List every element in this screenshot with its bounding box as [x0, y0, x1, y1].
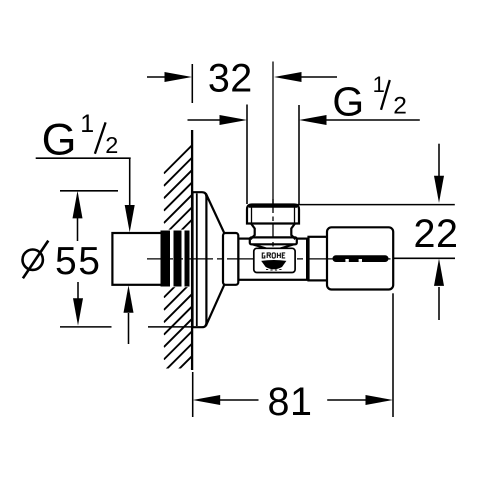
svg-text:G: G	[42, 114, 77, 164]
dim 32: right line+arrow	[274, 72, 337, 82]
wall line	[191, 130, 193, 370]
G1/2 right: thread ext lines	[246, 105, 248, 205]
G1/2 left: leader underline	[36, 157, 131, 159]
dim 32 ext line left	[191, 64, 193, 103]
centerline horizontal	[147, 258, 391, 260]
svg-text:G: G	[332, 79, 364, 125]
dia 55 symbol	[23, 250, 43, 270]
cone lower slope	[206, 284, 225, 326]
svg-text:22: 22	[414, 212, 459, 256]
G1/2 left: up arrow to pipe bottom	[124, 285, 134, 344]
inlet pipe	[112, 233, 162, 285]
outlet thread rim	[249, 205, 297, 208]
centerline vertical of outlet	[272, 62, 274, 205]
dim 22: up arrow	[434, 259, 444, 321]
svg-text:2: 2	[105, 132, 118, 158]
rosette	[193, 192, 207, 327]
GROHE wreath logo	[261, 260, 286, 269]
neck to handle	[309, 237, 328, 281]
dim 22: bottom ext line	[394, 257, 456, 259]
svg-text:81: 81	[268, 380, 313, 424]
G1/2 right text	[332, 72, 406, 125]
GROHE text	[262, 253, 285, 258]
dia 55: bottom ext line	[60, 326, 112, 328]
dim 22: down arrow	[434, 144, 444, 203]
wall hatching	[164, 145, 193, 409]
G1/2 left text	[42, 110, 119, 164]
outlet neck right	[291, 224, 295, 240]
G1/2 right: right arrow+leader	[299, 115, 420, 125]
valve body	[238, 239, 308, 280]
V notch in body top	[252, 244, 272, 250]
dim 22: top ext line	[295, 204, 455, 206]
dim 81: dim line + arrows	[193, 395, 393, 405]
svg-text:55: 55	[55, 240, 101, 283]
svg-text:1: 1	[80, 110, 94, 138]
outlet neck left	[251, 224, 255, 240]
handle	[327, 227, 393, 289]
dia 55: down arrow	[73, 282, 83, 326]
svg-text:2: 2	[393, 93, 407, 120]
handle groove	[333, 255, 389, 262]
G1/2 left: down arrow to pipe top	[125, 158, 135, 232]
svg-text:32: 32	[208, 56, 253, 100]
G1/2 right: left arrow	[188, 115, 248, 125]
dim 32: left line+arrow	[147, 72, 192, 82]
dim 81: ext lines	[192, 372, 194, 417]
GROHE label plate	[254, 248, 295, 272]
dia 55: top ext line	[60, 190, 118, 192]
outlet flange	[250, 237, 297, 244]
dia 55: up arrow	[73, 191, 83, 241]
inlet thread bars	[161, 231, 171, 287]
cone upper slope	[206, 194, 225, 234]
collar ring	[223, 233, 238, 285]
svg-text:1: 1	[373, 72, 385, 97]
outlet thread	[247, 205, 299, 224]
outlet thread root lines	[251, 207, 253, 224]
